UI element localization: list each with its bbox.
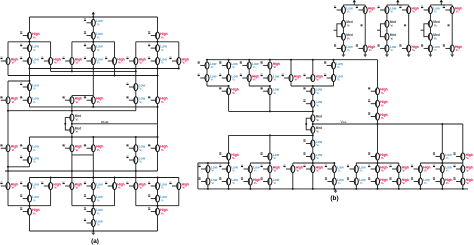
wire — [228, 160, 230, 166]
transistor Q105 (Med-Vt) — [341, 20, 352, 27]
junction — [92, 230, 94, 232]
wire — [178, 178, 180, 183]
junction — [71, 70, 73, 72]
junction — [312, 85, 314, 87]
transistor Q68 (High-Vt) — [368, 100, 388, 108]
wire tie — [229, 110, 313, 112]
wire — [157, 215, 159, 231]
wire — [269, 69, 271, 75]
wire — [135, 152, 137, 157]
wire — [135, 164, 137, 172]
wire — [114, 65, 116, 76]
junction — [114, 177, 116, 179]
transistor Q38 (High-Vt) — [63, 182, 83, 190]
wire — [71, 65, 73, 72]
wire — [292, 173, 294, 189]
wire node bus A — [30, 68, 179, 70]
wire — [451, 52, 453, 53]
transistor Q35 (High-Vt) — [0, 182, 18, 190]
svg-text:(a): (a) — [91, 238, 99, 245]
wire — [157, 124, 159, 145]
transistor Q89 (High-Vt) — [411, 165, 431, 173]
wire — [157, 65, 159, 69]
junction — [269, 134, 271, 136]
junction — [29, 80, 31, 82]
wire branch bracket — [136, 205, 179, 207]
transistor Q90 (Low-Vt) — [433, 165, 452, 173]
wire — [386, 14, 388, 21]
transistor Q39 (Low-Vt) — [84, 182, 103, 190]
transistor Q24 (High-Vt) — [148, 96, 168, 104]
wire — [29, 69, 31, 84]
ground circuit b — [334, 189, 338, 193]
wire — [71, 104, 73, 111]
net label cell 2 — [404, 24, 406, 26]
transistor Q56 (Low-Vt) — [198, 74, 217, 82]
wire gate bracket cell 2 — [377, 24, 385, 37]
wire — [157, 39, 159, 45]
wire — [29, 178, 31, 183]
net label cell 3 — [448, 24, 450, 26]
transistor Q34 (Low-Vt) — [126, 156, 145, 164]
junction — [377, 188, 379, 190]
wire — [206, 60, 208, 62]
wire — [29, 65, 31, 69]
wire — [408, 52, 410, 53]
wire tie — [72, 95, 93, 97]
transistor Q31 (Low-Vt) — [126, 144, 145, 152]
junction — [462, 188, 464, 190]
wire VDD rail cell 1 — [343, 4, 365, 6]
transistor Q92 (Low-Vt) — [199, 177, 218, 185]
junction — [157, 68, 159, 70]
transistor Q106 (Med-Vt) — [341, 33, 352, 40]
wire — [29, 52, 31, 58]
transistor Q1 (Low-Vt) — [84, 19, 103, 27]
wire — [355, 163, 357, 166]
wire — [342, 14, 344, 21]
junction — [135, 170, 137, 172]
wire — [312, 160, 314, 166]
wire — [364, 5, 366, 7]
wire — [292, 163, 294, 166]
ground cell 1 right — [363, 53, 367, 57]
wire — [333, 185, 335, 189]
wire — [29, 91, 31, 97]
wire tie — [249, 85, 270, 87]
wire — [92, 152, 94, 155]
wire — [71, 152, 73, 155]
wire — [7, 81, 9, 97]
wire — [333, 173, 335, 179]
transistor Q29 (High-Vt) — [63, 144, 83, 152]
wire tie — [291, 85, 334, 87]
transistor Q103 (Low-Vt) — [334, 6, 353, 14]
wire VDD rail cell 2 — [387, 4, 409, 6]
junction — [312, 162, 314, 164]
transistor Q41 (High-Vt) — [126, 182, 146, 190]
wire — [71, 155, 73, 183]
wire — [355, 173, 357, 179]
wire — [157, 69, 159, 97]
wire — [71, 96, 73, 97]
junction — [249, 188, 251, 190]
wire — [429, 27, 431, 33]
wire — [92, 69, 94, 97]
wire — [71, 134, 73, 138]
transistor Q64 (Low-Vt) — [261, 87, 280, 95]
transistor Q21 (High-Vt) — [63, 96, 83, 104]
wire branch bracket — [8, 205, 51, 207]
wire — [398, 185, 400, 189]
junction — [377, 162, 379, 164]
transistor Q44 (Low-Vt) — [20, 194, 39, 202]
transistor Q43 (High-Vt) — [169, 182, 189, 190]
transistor Q85 (Low-Vt) — [325, 165, 344, 173]
wire — [157, 202, 159, 208]
transistor Q50 (Low-Vt) — [84, 219, 103, 227]
wire — [377, 124, 379, 153]
ground cell 3 left — [428, 53, 432, 57]
wire — [29, 104, 31, 107]
junction — [290, 59, 292, 61]
net label cell 1 — [361, 24, 363, 26]
junction — [157, 136, 159, 138]
wire — [157, 17, 159, 32]
wire branch bracket — [72, 205, 115, 207]
wire — [441, 185, 443, 189]
wire — [312, 122, 314, 127]
transistor Q97 (Low-Vt) — [347, 177, 366, 185]
wire — [377, 160, 379, 166]
junction — [312, 188, 314, 190]
junction — [206, 59, 208, 61]
junction — [135, 70, 137, 72]
transistor Q17 (Low-Vt) — [20, 83, 39, 91]
wire — [7, 104, 9, 145]
transistor Q93 (Low-Vt) — [219, 177, 238, 185]
svg-text:(b): (b) — [330, 195, 338, 202]
junction — [377, 123, 379, 125]
junction — [29, 41, 31, 43]
junction — [7, 110, 9, 112]
junction — [419, 188, 421, 190]
transistor Q54 (High-Vt) — [261, 61, 281, 69]
junction — [92, 106, 94, 108]
wire — [29, 190, 31, 196]
wire VDD rail cell 3 — [430, 4, 452, 6]
wire node bus C — [8, 75, 158, 77]
transistor Q13 (High-Vt) — [105, 57, 125, 65]
junction — [441, 123, 443, 125]
transistor Q33 (Low-Vt) — [20, 156, 39, 164]
transistor Q72 (High-Vt) — [219, 152, 239, 160]
junction — [7, 166, 9, 168]
wire — [29, 202, 31, 208]
wire — [248, 60, 250, 62]
wire — [206, 82, 208, 87]
wire — [377, 107, 379, 113]
wire — [135, 137, 137, 145]
transistor Q57 (Low-Vt) — [219, 74, 238, 82]
wire — [355, 185, 357, 189]
junction — [157, 41, 159, 43]
wire — [92, 52, 94, 58]
transistor Q116 (High-Vt) — [443, 6, 463, 14]
junction — [7, 170, 9, 172]
transistor Q94 (High-Vt) — [241, 177, 261, 185]
wire — [419, 185, 421, 189]
junction — [92, 41, 94, 43]
wire — [135, 65, 137, 72]
transistor Q86 (Low-Vt) — [347, 165, 366, 173]
junction — [135, 136, 137, 138]
wire node link — [8, 80, 30, 82]
wire ground rail circuit a — [30, 230, 158, 232]
transistor Q100 (Low-Vt) — [411, 177, 430, 185]
wire — [135, 171, 137, 183]
wire — [135, 91, 137, 97]
wire top rail circuit b mid — [207, 59, 378, 61]
svg-text:Rbulk: Rbulk — [101, 120, 109, 124]
wire — [249, 185, 251, 189]
wire — [206, 69, 208, 75]
wire — [269, 160, 271, 166]
wire — [462, 124, 464, 153]
wire tie — [207, 85, 229, 87]
wire — [228, 69, 230, 75]
ground cell 2 left — [385, 53, 389, 57]
wire — [248, 82, 250, 87]
transistor Q69 (High-Vt) — [368, 112, 388, 120]
transistor Q101 (High-Vt) — [433, 177, 453, 185]
transistor Q83 (High-Vt) — [283, 165, 303, 173]
wire — [7, 65, 9, 76]
transistor Q62 (Low-Vt) — [324, 74, 343, 82]
transistor Q115 (Low-Vt) — [421, 6, 440, 14]
junction — [92, 136, 94, 138]
wire — [92, 190, 94, 196]
transistor Q42 (Low-Vt) — [148, 182, 167, 190]
transistor Q119 (Low-Vt) — [421, 44, 440, 52]
wire — [114, 190, 116, 206]
junction Vout node — [312, 123, 314, 125]
junction — [269, 162, 271, 164]
transistor Q22 (High-Vt) — [84, 96, 104, 104]
ground cell 2 right — [407, 53, 411, 57]
wire gate bracket of bulk pair — [65, 118, 70, 130]
transistor Q40 (High-Vt) — [105, 182, 125, 190]
wire — [29, 215, 31, 231]
wire — [92, 137, 94, 145]
transistor Q99 (High-Vt) — [389, 177, 409, 185]
junction — [333, 59, 335, 61]
wire — [441, 160, 443, 166]
wire — [92, 65, 94, 69]
wire — [429, 14, 431, 21]
wire — [249, 173, 251, 179]
junction — [92, 16, 94, 18]
wire — [342, 52, 344, 53]
wire — [71, 111, 73, 114]
junction — [29, 68, 31, 70]
wire — [386, 5, 388, 7]
wire — [71, 42, 73, 58]
junction — [333, 162, 335, 164]
transistor Q104 (High-Vt) — [356, 6, 376, 14]
wire — [386, 40, 388, 45]
wire — [386, 52, 388, 53]
transistor Q113 (Low-Vt) — [378, 44, 397, 52]
wire — [249, 163, 251, 166]
wire — [71, 137, 73, 145]
junction — [207, 162, 209, 164]
transistor Q79 (Low-Vt) — [199, 165, 218, 173]
transistor Q117 (Med-Vt) — [428, 20, 439, 27]
junction — [228, 59, 230, 61]
wire — [462, 173, 464, 179]
wire — [269, 173, 271, 179]
wire — [114, 42, 116, 58]
wire — [333, 69, 335, 75]
transistor Q78 (High-Vt) — [453, 152, 473, 160]
transistor Q47 (High-Vt) — [20, 207, 40, 215]
transistor Q48 (Low-Vt) — [84, 207, 103, 215]
wire — [135, 71, 137, 83]
transistor Q60 (High-Vt) — [282, 74, 302, 82]
junction — [398, 188, 400, 190]
wire tie — [198, 162, 229, 164]
wire — [429, 40, 431, 45]
transistor Q11 (High-Vt) — [63, 57, 83, 65]
transistor Q5 (Low-Vt) — [20, 44, 39, 52]
wire node bus E — [30, 106, 158, 108]
junction — [50, 177, 52, 179]
transistor Q46 (Low-Vt) — [148, 194, 167, 202]
transistor Q45 (Low-Vt) — [84, 194, 103, 202]
wire — [342, 40, 344, 45]
wire — [228, 135, 230, 153]
vdd arrow circuit a — [92, 12, 95, 17]
transistor Q109 (Low-Vt) — [378, 6, 397, 14]
wire — [248, 69, 250, 75]
wire — [114, 178, 116, 183]
wire mid rail circuit b — [229, 134, 313, 136]
transistor Q84 (High-Vt) — [303, 165, 323, 173]
wire — [92, 155, 94, 183]
transistor Q120 (High-Vt) — [443, 44, 463, 52]
wire — [312, 133, 314, 140]
wire node bus F — [8, 110, 136, 112]
transistor Q82 (High-Vt) — [261, 165, 281, 173]
wire — [207, 173, 209, 179]
wire — [228, 95, 230, 112]
junction — [333, 188, 335, 190]
junction — [71, 110, 73, 112]
wire gate bracket of output pair — [306, 118, 311, 130]
junction — [71, 136, 73, 138]
transistor Q20 (Low-Vt) — [20, 96, 39, 104]
junction — [292, 188, 294, 190]
wire — [7, 42, 9, 58]
transistor Q18 (Low-Vt) — [126, 83, 145, 91]
junction — [157, 205, 159, 207]
wire — [92, 227, 94, 232]
transistor Q37 (High-Vt) — [41, 182, 61, 190]
wire — [92, 215, 94, 219]
junction — [312, 110, 314, 112]
wire — [228, 60, 230, 62]
junction — [92, 177, 94, 179]
wire — [290, 60, 292, 75]
wire red column drop — [377, 60, 379, 88]
transistor Q9 (Low-Vt) — [20, 57, 39, 65]
wire node bus H — [5, 170, 158, 172]
wire — [71, 121, 73, 126]
transistor Q63 (High-Vt) — [219, 87, 239, 95]
transistor Q3 (Low-Vt) — [84, 31, 103, 39]
junction — [29, 205, 31, 207]
wire tie — [250, 162, 270, 164]
wire — [29, 152, 31, 157]
wire — [333, 82, 335, 87]
transistor Q19 (High-Vt) — [0, 96, 18, 104]
wire ground rail circuit b — [198, 188, 468, 190]
wire node link — [8, 166, 30, 168]
transistor Q12 (Low-Vt) — [84, 57, 103, 65]
wire — [312, 107, 314, 115]
transistor Q76 (High-Vt) — [368, 152, 388, 160]
wire VDD rail of circuit a — [30, 16, 158, 18]
wire — [228, 185, 230, 189]
wire — [398, 173, 400, 179]
junction — [178, 68, 180, 70]
wire — [398, 163, 400, 166]
wire — [50, 42, 52, 58]
wire node bus B — [51, 70, 136, 72]
wire node bus I — [30, 177, 179, 179]
junction — [269, 110, 271, 112]
ground cell 3 right — [450, 53, 454, 57]
wire tie — [293, 162, 335, 164]
wire — [157, 152, 159, 171]
wire branch bracket — [8, 41, 51, 43]
transistor Q102 (High-Vt) — [453, 177, 473, 185]
wire — [419, 173, 421, 179]
junction — [114, 75, 116, 77]
wire — [333, 60, 335, 62]
wire tie — [72, 154, 93, 156]
transistor Q110 (High-Vt) — [399, 6, 419, 14]
wire — [451, 14, 453, 45]
wire — [178, 65, 180, 69]
junction Rbulk node — [71, 123, 73, 125]
transistor Q52 (Low-Vt) — [219, 61, 238, 69]
wire — [419, 163, 421, 166]
junction — [92, 68, 94, 70]
transistor Q30 (High-Vt) — [84, 144, 104, 152]
junction — [269, 188, 271, 190]
wire — [451, 5, 453, 7]
vdd arrow cell 2 — [396, 0, 399, 5]
transistor Q74 (Low-Vt) — [303, 139, 322, 147]
wire — [269, 95, 271, 112]
wire — [312, 173, 314, 189]
wire — [408, 5, 410, 7]
wire — [408, 14, 410, 45]
wire gate bracket cell 1 — [334, 24, 342, 37]
wire — [92, 104, 94, 107]
